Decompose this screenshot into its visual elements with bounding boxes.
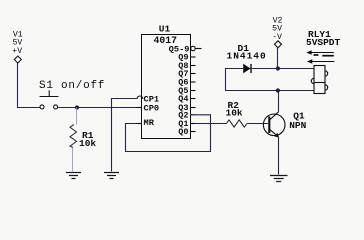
wire MR to Q2 loop xyxy=(126,115,211,152)
transistor Q1 base bar xyxy=(268,117,270,134)
pin labels Q9..Q0 xyxy=(178,53,188,138)
svg-text:NPN: NPN xyxy=(289,120,306,131)
relay RLY1 contact common arrow xyxy=(306,50,334,54)
resistor R2 xyxy=(227,120,248,127)
relay RLY1 coil bump right bottom xyxy=(325,85,328,90)
svg-text:MR: MR xyxy=(144,118,155,128)
wire top rail xyxy=(251,68,314,70)
junction node top rail xyxy=(276,66,280,70)
relay RLY1 armature arrow xyxy=(307,59,334,63)
svg-text:+V: +V xyxy=(12,47,22,56)
ground under R1 xyxy=(66,173,81,179)
ground at emitter xyxy=(270,176,288,182)
wire junction to R1 xyxy=(76,108,78,125)
wire V2 down xyxy=(277,48,279,69)
svg-text:10k: 10k xyxy=(226,108,243,119)
IC U1 box xyxy=(142,35,191,139)
wire diode anode loop xyxy=(226,69,279,91)
relay RLY1 coil bump left xyxy=(311,78,314,83)
wire CP1 to ground vertical xyxy=(112,99,137,172)
svg-text:5VSPDT: 5VSPDT xyxy=(306,37,341,48)
pin Q5-9 stub xyxy=(195,48,201,50)
voltage source V1 label xyxy=(12,30,23,56)
svg-text:10k: 10k xyxy=(79,138,96,149)
transistor Q1 emitter arrow xyxy=(274,133,279,138)
wire Q1 to R2 xyxy=(195,123,227,125)
relay RLY1 coil body xyxy=(314,66,325,94)
voltage source V2 terminal node xyxy=(275,41,282,48)
ground at CP1 net xyxy=(104,173,119,179)
transistor Q1 emitter stroke xyxy=(270,129,279,137)
svg-text:1N4140: 1N4140 xyxy=(227,51,267,62)
pin CP1 clock triangle xyxy=(137,96,143,99)
svg-text:U1: U1 xyxy=(159,24,171,35)
relay RLY1 coil bump right top xyxy=(325,71,328,76)
svg-text:-V: -V xyxy=(272,33,282,42)
wire emitter down xyxy=(278,137,280,175)
relay RLY1 contact throw 1 xyxy=(314,54,319,56)
wire R2 to base xyxy=(247,123,268,125)
junction node bottom rail xyxy=(276,88,280,92)
transistor Q1 collector stroke xyxy=(270,112,279,120)
svg-text:Q0: Q0 xyxy=(178,127,188,137)
pin MR stub xyxy=(137,123,142,125)
voltage source V1 terminal node xyxy=(14,56,21,63)
switch S1 pushbutton xyxy=(40,90,59,109)
wire collector up xyxy=(278,91,280,112)
right pin stubs Q9..Q0 xyxy=(191,57,196,132)
junction node xyxy=(75,105,79,109)
transistor Q1 circle xyxy=(263,114,285,136)
diode D1 cathode bar xyxy=(250,64,252,73)
diode D1 triangle xyxy=(243,64,250,73)
wire switch to CP0 xyxy=(58,107,142,109)
pin Q5-9 bubble xyxy=(191,46,195,50)
svg-text:CP0: CP0 xyxy=(144,103,160,113)
wire bottom rail to relay xyxy=(278,90,314,92)
relay RLY1 contact throw 2 xyxy=(322,55,334,57)
wire V1 down xyxy=(18,63,40,108)
pin CP0 stub xyxy=(137,107,142,109)
resistor R1 xyxy=(70,125,77,148)
wire R1 to ground xyxy=(72,148,74,172)
voltage source V2 label xyxy=(272,16,282,42)
